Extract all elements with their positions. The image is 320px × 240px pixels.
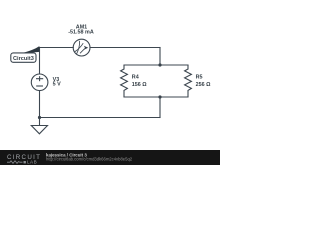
footer logo CIRCUIT LAB [0,150,220,165]
net label flag Circuit3 [22,46,40,53]
svg-text:156 Ω: 156 Ω [132,82,147,88]
svg-text:LAB: LAB [27,160,37,165]
wire: left vertical from top corner to V3 top [39,48,41,75]
wire: V3 bottom lead down to ground node [39,91,41,118]
svg-text:R5: R5 [196,75,203,81]
svg-text:-51.58 mA: -51.58 mA [68,29,94,35]
svg-text:http://circuitlab.com/c/cmd3dk: http://circuitlab.com/c/cmd3dk66m2c4vb8e… [46,157,133,162]
node: bottom bus junction [158,95,161,98]
node: ground junction [38,116,41,119]
ammeter AM1 [73,39,90,56]
wire: top bus across resistor tops [124,64,188,66]
wire: top horizontal, ammeter right to right drop [90,47,160,49]
wire: vertical drop from bottom bus junction [159,97,161,118]
svg-text:Circuit3: Circuit3 [13,56,34,62]
resistor R5 [185,65,192,97]
wire: top horizontal, corner to ammeter left [40,47,74,49]
wire: bottom bus across resistor bottoms [124,96,188,98]
net label box Circuit3 [11,53,36,62]
wire: bottom horizontal back to ground node [40,117,161,119]
svg-text:R4: R4 [132,75,139,81]
footer bar [0,150,220,165]
resistor R4 [121,65,128,97]
ammeter AM1 arrowhead [84,46,88,50]
node: top bus junction [158,63,161,66]
svg-text:5 V: 5 V [53,82,61,88]
svg-text:256 Ω: 256 Ω [196,82,211,88]
voltage source V3 [31,74,48,91]
ground [31,118,47,134]
wire: right vertical drop to top bus [159,48,161,66]
